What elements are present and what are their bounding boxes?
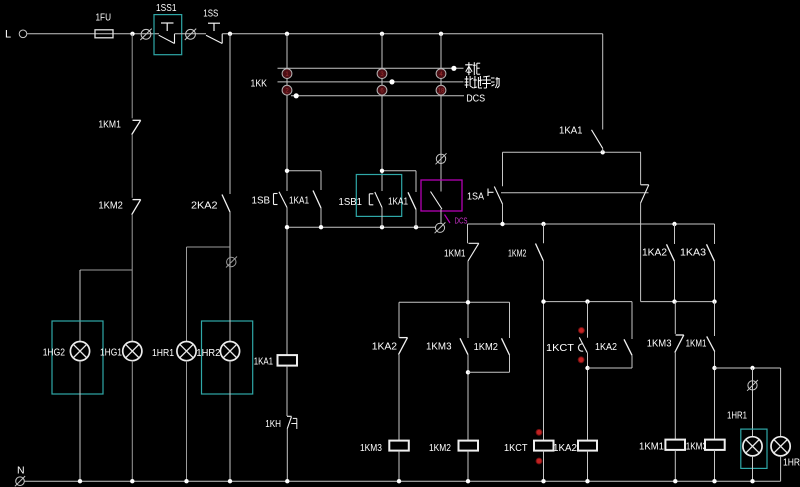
svg-text:1KCT: 1KCT: [504, 442, 528, 454]
svg-text:1KA1: 1KA1: [289, 195, 309, 207]
svg-text:1KA1: 1KA1: [388, 195, 408, 207]
svg-text:1HR2: 1HR2: [196, 347, 220, 359]
svg-text:1KA2: 1KA2: [642, 246, 667, 258]
svg-text:2KA2: 2KA2: [191, 200, 218, 212]
svg-text:1KM1: 1KM1: [639, 440, 664, 452]
svg-text:1KA1: 1KA1: [254, 356, 273, 368]
svg-text:1KM1: 1KM1: [444, 248, 466, 260]
svg-text:1KCT: 1KCT: [546, 342, 575, 354]
svg-text:1KA3: 1KA3: [680, 246, 706, 258]
svg-text:DCS: DCS: [466, 93, 485, 105]
svg-text:1KM2: 1KM2: [98, 199, 123, 211]
svg-text:1SB: 1SB: [252, 195, 271, 207]
svg-text:1SS: 1SS: [203, 8, 218, 20]
svg-text:1KA2: 1KA2: [595, 341, 617, 353]
svg-text:1KM2: 1KM2: [474, 341, 499, 353]
svg-text:1SB1: 1SB1: [339, 196, 363, 208]
svg-text:1KM3: 1KM3: [426, 341, 452, 353]
svg-text:1HR: 1HR: [783, 456, 800, 468]
svg-text:1KA2: 1KA2: [372, 341, 398, 353]
svg-text:1KM3: 1KM3: [647, 338, 672, 350]
svg-text:18: 18: [438, 89, 445, 95]
svg-text:1KM1: 1KM1: [686, 338, 707, 350]
svg-text:1KH: 1KH: [265, 418, 281, 430]
svg-text:1SA: 1SA: [467, 191, 484, 203]
svg-text:L: L: [5, 29, 11, 41]
svg-text:1KA1: 1KA1: [559, 124, 583, 136]
svg-text:1KM2: 1KM2: [508, 248, 527, 260]
svg-text:1KM1: 1KM1: [98, 119, 121, 131]
svg-text:1HR1: 1HR1: [152, 347, 174, 359]
svg-text:1KM2: 1KM2: [429, 442, 451, 454]
svg-text:1SS1: 1SS1: [156, 2, 177, 14]
svg-text:1KK: 1KK: [251, 78, 268, 90]
svg-text:1KM3: 1KM3: [686, 440, 707, 452]
svg-text:DCS: DCS: [455, 216, 468, 225]
svg-text:N: N: [17, 464, 25, 476]
svg-text:1KA2: 1KA2: [553, 442, 577, 454]
svg-text:1HR1: 1HR1: [727, 409, 747, 421]
svg-text:1FU: 1FU: [96, 12, 112, 24]
svg-text:1HG1: 1HG1: [100, 346, 122, 358]
svg-text:1KM3: 1KM3: [360, 442, 382, 454]
svg-text:1HG2: 1HG2: [43, 347, 65, 359]
